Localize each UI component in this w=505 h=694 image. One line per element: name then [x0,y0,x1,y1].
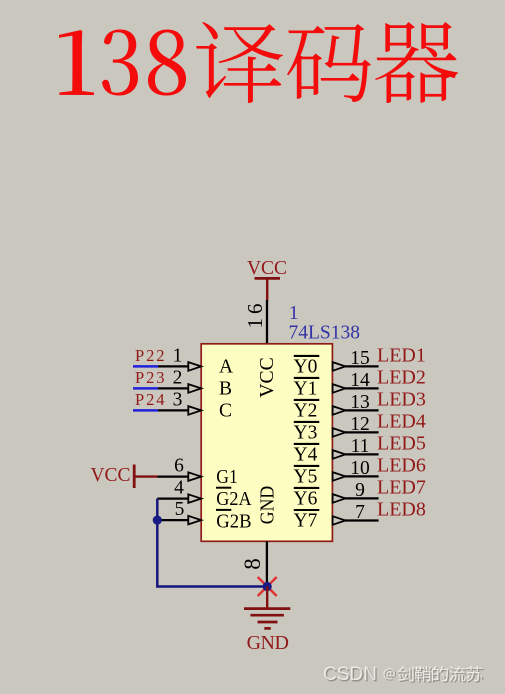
svg-text:Y1: Y1 [294,379,318,400]
svg-text:LED2: LED2 [377,367,426,389]
watermark CSDN [323,664,396,686]
svg-text:7: 7 [355,502,365,523]
wire pin 7 [345,519,379,521]
pin 12 arrow [333,428,346,437]
pin name Y1 with overline [294,378,320,400]
wire pin 14 [345,387,379,389]
wire pin 12 [345,431,379,433]
pin 5 arrow [188,516,201,525]
pin 11 arrow [333,450,346,459]
power VCC (top) bar symbol [255,278,281,300]
svg-text:P23: P23 [135,368,166,387]
pin 2 arrow [188,384,201,393]
pin name Y5 with overline [294,466,320,488]
wire pin 15 [345,365,379,367]
ground symbol [244,587,290,629]
wire pin 10 [345,475,379,477]
svg-text:Y7: Y7 [294,511,318,532]
wire to pin 6 [158,475,189,477]
svg-text:P24: P24 [135,390,166,409]
wire stub P23 [133,387,158,390]
svg-text:Y6: Y6 [294,489,318,510]
pin name Y7 with overline [294,510,320,532]
svg-text:8: 8 [240,558,265,570]
svg-text:5: 5 [175,499,185,520]
svg-text:12: 12 [350,414,370,435]
wire stub P24 [133,409,158,412]
wire to pin 3 [158,409,189,411]
svg-text:2: 2 [173,368,183,389]
pin name Y6 with overline [294,488,320,510]
svg-text:VCC: VCC [257,357,278,398]
svg-text:Y2: Y2 [294,401,318,422]
pin 1 arrow [188,362,201,371]
svg-text:P22: P22 [135,346,166,365]
svg-text:VCC: VCC [90,465,130,486]
svg-text:1: 1 [289,302,299,324]
svg-text:LED7: LED7 [377,477,426,499]
svg-text:G2A: G2A [216,489,251,510]
svg-text:VCC: VCC [247,258,287,279]
svg-text:3: 3 [173,390,183,411]
pin 3 arrow [188,406,201,415]
ERC cross marker [258,577,277,596]
svg-text:9: 9 [355,480,365,501]
svg-text:G2B: G2B [216,511,251,532]
svg-text:GND: GND [257,486,278,525]
junction at ground [263,582,272,591]
watermark user name [397,666,483,683]
svg-text:Y5: Y5 [294,467,318,488]
pin 7 arrow [333,516,346,525]
pin name G2A with overline [216,488,252,511]
svg-text:LED1: LED1 [377,345,426,367]
svg-text:14: 14 [350,370,370,391]
svg-text:A: A [219,357,233,378]
pin name Y4 with overline [294,444,320,466]
pin 14 arrow [333,384,346,393]
pin 9 arrow [333,494,346,503]
pin name Y3 with overline [294,422,320,444]
wire to pin 4 [157,497,188,499]
junction G2A/G2B [153,516,162,525]
title "138" [59,30,186,96]
wire pin 13 [345,409,379,411]
pin name Y0 with overline [294,356,320,378]
wire pin 9 [345,497,379,499]
svg-text:G1: G1 [216,467,238,488]
svg-text:GND: GND [247,632,289,654]
svg-text:13: 13 [350,392,370,413]
svg-text:6: 6 [174,455,184,476]
pin 15 arrow [333,362,346,371]
svg-text:B: B [219,379,232,400]
IC U1 74LS138 body [201,344,332,542]
svg-text:Y4: Y4 [294,445,318,466]
power VCC (left) bar symbol [134,465,157,489]
svg-text:LED8: LED8 [377,499,426,521]
wire pin 8 to ground [266,541,268,586]
wire stub P22 [133,365,158,368]
pin 13 arrow [333,406,346,415]
svg-text:Y0: Y0 [294,357,318,378]
pin 4 arrow [188,494,201,503]
title "decoder" (Chinese) [196,22,458,103]
wire to pin 1 [158,365,189,367]
pin name G2B with overline [216,510,252,532]
pin 6 arrow [188,472,201,481]
wire to pin 2 [158,387,189,389]
svg-text:1: 1 [173,346,183,367]
svg-text:74LS138: 74LS138 [289,323,361,344]
svg-text:LED5: LED5 [377,433,426,455]
wire VCC to pin 16 [266,300,268,344]
svg-text:LED4: LED4 [377,411,426,433]
svg-text:Y3: Y3 [294,423,318,444]
wire pin 11 [345,453,379,455]
pin 10 arrow [333,472,346,481]
svg-text:4: 4 [174,477,184,498]
svg-text:LED3: LED3 [377,389,426,411]
wire to pin 5 [157,519,188,521]
svg-text:10: 10 [350,458,370,479]
pin name Y2 with overline [294,400,320,422]
svg-text:CSDN: CSDN [323,664,377,685]
svg-text:11: 11 [351,436,370,457]
svg-text:C: C [219,401,232,422]
svg-text:15: 15 [350,348,370,369]
svg-text:16: 16 [243,300,267,329]
wire G2A/G2B to ground [157,499,267,587]
svg-text:LED6: LED6 [377,455,426,477]
